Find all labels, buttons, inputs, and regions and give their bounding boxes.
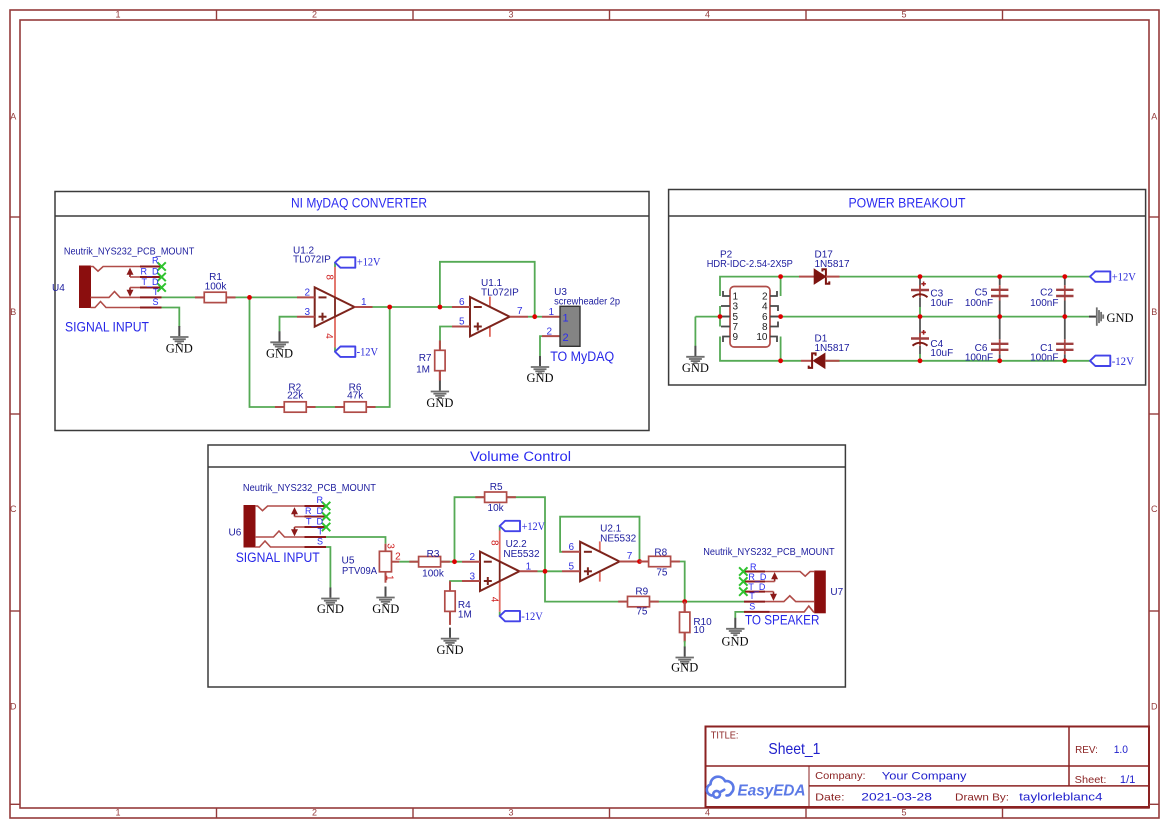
svg-text:4: 4 [705, 10, 710, 20]
svg-text:GND: GND [266, 347, 293, 361]
-12V power flag U2.2 [500, 611, 520, 621]
wire R2 to R6 [306, 406, 344, 408]
wire +12V top rail right [840, 276, 1091, 278]
wire R9 to junction [648, 601, 685, 603]
GND net flag right [1089, 307, 1103, 325]
no-connect X on U4 T_D [157, 283, 165, 291]
frame column numbers top [115, 10, 906, 20]
svg-text:Sheet:: Sheet: [1075, 774, 1107, 786]
wire pot pin2 to R3 [399, 561, 419, 563]
svg-text:R_D: R_D [140, 266, 159, 276]
wire U6 S to GND elbow [326, 547, 330, 588]
svg-text:7: 7 [627, 551, 633, 562]
svg-text:C2: C2 [1040, 288, 1053, 299]
svg-text:R7: R7 [419, 353, 432, 364]
junctions cap columns top rail [918, 274, 923, 279]
+12V power flag right [1090, 271, 1110, 281]
svg-text:GND: GND [436, 643, 463, 657]
svg-text:R3: R3 [427, 549, 440, 560]
wire R8 right leg down [670, 562, 685, 602]
resistor R9 [618, 596, 659, 606]
svg-text:U4: U4 [52, 283, 65, 294]
svg-text:100nF: 100nF [1030, 353, 1058, 364]
svg-text:SIGNAL INPUT: SIGNAL INPUT [65, 320, 149, 335]
svg-text:1: 1 [115, 808, 120, 818]
junction P2 pin2 [778, 274, 783, 279]
resistor R1 [195, 292, 236, 302]
junction U1.1 output [532, 314, 537, 319]
svg-text:5: 5 [901, 808, 906, 818]
svg-text:TO MyDAQ: TO MyDAQ [550, 349, 614, 364]
svg-text:R8: R8 [654, 547, 667, 558]
wire P2 pin10 rise [780, 337, 782, 361]
svg-text:8: 8 [489, 540, 500, 546]
svg-text:GND: GND [426, 396, 453, 410]
svg-text:T_D: T_D [306, 516, 324, 526]
jack U6 body [244, 506, 255, 548]
junctions cap columns bottom rail [918, 358, 923, 363]
svg-text:GND: GND [682, 361, 709, 375]
svg-text:2: 2 [312, 808, 317, 818]
wire P2 pin2 drop [780, 277, 782, 296]
jack U7 R_D link arrow [772, 574, 776, 582]
svg-text:TL072IP: TL072IP [293, 255, 331, 266]
frame column ticks bottom [217, 808, 1003, 818]
jack U4 S contact [91, 302, 141, 308]
capacitor C2 [1056, 279, 1073, 317]
svg-text:Your Company: Your Company [882, 771, 967, 783]
resistor R4 [445, 581, 455, 621]
svg-text:Neutrik_NYS232_PCB_MOUNT: Neutrik_NYS232_PCB_MOUNT [703, 547, 834, 558]
svg-text:Volume Control: Volume Control [470, 449, 571, 464]
svg-text:100nF: 100nF [1030, 298, 1058, 309]
svg-text:3: 3 [508, 808, 513, 818]
frame row ticks left [10, 217, 20, 611]
no-connect X on U4 R_D [157, 273, 165, 281]
svg-text:REV:: REV: [1075, 744, 1098, 756]
junction P2 pin5 [718, 314, 723, 319]
junction P2 pin10 [778, 358, 783, 363]
header P2 pin numbers right [756, 292, 768, 344]
wire -12V bottom rail right [825, 360, 1090, 362]
svg-text:TL072IP: TL072IP [481, 287, 519, 298]
svg-text:10: 10 [756, 332, 768, 343]
svg-text:5: 5 [901, 10, 906, 20]
op-amp U1.1 [452, 297, 528, 337]
svg-text:1: 1 [115, 10, 120, 20]
svg-text:C5: C5 [975, 288, 988, 299]
header P2 body [730, 287, 770, 348]
jack U7 S contact [770, 606, 815, 612]
R7 bottom stub [439, 371, 441, 381]
wire R6 up to output junction [366, 307, 390, 407]
svg-text:9: 9 [733, 332, 739, 343]
jack U7 body [815, 571, 826, 613]
svg-text:S: S [749, 601, 755, 611]
svg-text:C: C [10, 504, 17, 514]
capacitor C5 [991, 279, 1008, 317]
wire U2.1 feedback loop [560, 517, 639, 562]
resistor R2 [275, 402, 316, 412]
capacitor C6 [991, 319, 1008, 362]
svg-text:47k: 47k [347, 390, 364, 401]
svg-text:7: 7 [517, 306, 523, 317]
svg-text:GND: GND [166, 341, 193, 355]
svg-text:4: 4 [705, 808, 710, 818]
header P2 pin numbers left [733, 292, 739, 344]
svg-text:2: 2 [563, 332, 569, 344]
jack U7 R pin [743, 571, 765, 573]
+12V power flag U2.2 [500, 521, 520, 531]
wire U1.1 out to U3 pin1 [528, 316, 542, 318]
diode D1 [801, 353, 840, 368]
svg-text:NE5532: NE5532 [503, 549, 540, 560]
svg-text:100nF: 100nF [965, 298, 993, 309]
no-connect X on U6 R [322, 502, 330, 510]
jack U7 T_D link arrow [771, 592, 775, 600]
no-connect X on U4 R [157, 262, 165, 270]
wire junction down to R2 leg [250, 297, 285, 407]
jack U7 S pin [744, 611, 770, 613]
wire pin3 to GND [280, 317, 298, 332]
wire -12V bottom rail left [720, 337, 801, 361]
svg-text:2021-03-28: 2021-03-28 [861, 792, 932, 804]
wire T row U4 to R1 [162, 296, 205, 298]
wire R1 to opamp pin2 [226, 296, 297, 298]
resistor R7 [435, 341, 445, 381]
GND under U4 S [170, 326, 188, 343]
jack U4 body [80, 266, 91, 308]
svg-text:C: C [1151, 504, 1158, 514]
svg-text:D: D [10, 702, 17, 712]
svg-text:A: A [10, 112, 16, 122]
svg-text:8: 8 [323, 274, 334, 280]
svg-text:5: 5 [568, 562, 574, 573]
diode D17 [799, 269, 840, 284]
svg-text:GND: GND [372, 602, 399, 616]
wire junction to U7 T [685, 601, 744, 603]
jack U7 T contact [765, 596, 815, 602]
jack U6 S contact [255, 541, 305, 547]
svg-text:1: 1 [548, 307, 554, 318]
jack U7 R_D contact [765, 581, 775, 583]
svg-text:NI MyDAQ CONVERTER: NI MyDAQ CONVERTER [291, 196, 427, 211]
wire opamp U1.2 out to U1.1 pin6 [373, 306, 453, 308]
svg-text:GND: GND [317, 602, 344, 616]
wire U2.2 out down to R9 [545, 571, 629, 601]
jack U4 S pin [140, 307, 162, 309]
svg-text:T: T [153, 287, 159, 297]
frame column ticks top [217, 10, 1003, 20]
svg-text:POWER BREAKOUT: POWER BREAKOUT [849, 196, 966, 211]
jack U7 T_D pin [743, 591, 765, 593]
GND under opamp pin3 [270, 331, 288, 348]
svg-text:1/1: 1/1 [1120, 774, 1136, 786]
frame row ticks right [1149, 217, 1159, 611]
svg-text:taylorleblanc4: taylorleblanc4 [1019, 792, 1102, 804]
svg-text:22k: 22k [287, 390, 304, 401]
jack U6 S pin [305, 546, 327, 548]
svg-text:B: B [1151, 307, 1157, 317]
capacitor C3 [911, 279, 929, 317]
svg-text:HDR-IDC-2.54-2X5P: HDR-IDC-2.54-2X5P [707, 259, 793, 270]
jack U7 R_D pin [743, 581, 765, 583]
svg-text:R: R [750, 562, 757, 572]
svg-text:10uF: 10uF [930, 348, 953, 359]
junction R3 out [452, 559, 457, 564]
svg-text:NE5532: NE5532 [600, 534, 637, 545]
svg-text:3: 3 [304, 307, 310, 318]
svg-text:2: 2 [312, 10, 317, 20]
svg-text:1M: 1M [416, 365, 430, 376]
capacitor C4 [911, 319, 929, 362]
jack U4 T_D pin [140, 287, 162, 289]
junction at R1 output [247, 295, 252, 300]
resistor R3 [409, 557, 450, 567]
jack U4 T_D link arrow [128, 288, 132, 296]
jack U7 R contact [765, 572, 815, 577]
svg-text:75: 75 [656, 567, 668, 578]
svg-text:R_D: R_D [305, 506, 324, 516]
GND under P2 [686, 346, 704, 363]
svg-text:T_D: T_D [141, 277, 159, 287]
wire U6 T to pot pin3 [326, 537, 386, 544]
op-amp U1.2 [297, 263, 373, 352]
jack U6 T_D link arrow [292, 527, 296, 535]
svg-text:3: 3 [469, 572, 475, 583]
frame row letters right [1151, 112, 1158, 712]
svg-text:SIGNAL INPUT: SIGNAL INPUT [236, 550, 320, 565]
jack U6 R pin [305, 505, 327, 507]
junction U2.2 out [543, 569, 548, 574]
jack U4 R contact [91, 267, 141, 272]
GND under R7 [431, 381, 449, 398]
svg-text:1N5817: 1N5817 [815, 259, 850, 270]
wire P2 pins 3-5-7 tie [719, 306, 721, 327]
svg-text:R_D: R_D [748, 572, 767, 582]
+12V power flag U1.2 [335, 257, 355, 267]
svg-text:screwheader 2p: screwheader 2p [554, 297, 620, 308]
svg-text:2: 2 [546, 327, 552, 338]
GND under U6 S [321, 588, 339, 605]
svg-text:10: 10 [693, 625, 705, 636]
svg-text:4: 4 [762, 302, 768, 313]
frame column numbers bottom [115, 808, 906, 818]
svg-text:5: 5 [459, 317, 465, 328]
op-amp U2.1 [562, 541, 638, 581]
GND under U3 pin2 [531, 356, 549, 373]
svg-text:TITLE:: TITLE: [711, 730, 739, 742]
svg-text:GND: GND [721, 634, 748, 648]
svg-text:TO SPEAKER: TO SPEAKER [745, 613, 820, 628]
no-connect X on U7 R_D [739, 577, 747, 585]
capacitor C1 [1056, 319, 1073, 362]
svg-text:3: 3 [508, 10, 513, 20]
-12V power flag right [1090, 356, 1110, 366]
resistor R10 [680, 602, 690, 642]
wire U2.2 out to U2.1 pin5 [538, 570, 563, 572]
jack U7 T pin [744, 601, 765, 603]
svg-text:1: 1 [383, 575, 394, 581]
R10 top stub [684, 602, 686, 613]
U3 pin2 lead [542, 335, 560, 337]
svg-text:S: S [317, 536, 323, 546]
jack U4 R pin [140, 266, 162, 268]
jack U6 R_D link arrow [292, 509, 296, 517]
svg-text:U5: U5 [342, 555, 355, 566]
svg-text:100k: 100k [205, 281, 228, 292]
frame row letters left [10, 112, 17, 712]
screw header U3 body [560, 306, 580, 346]
wire GND leg left [694, 317, 696, 346]
wire U2.1 out to R8 [638, 561, 650, 563]
U3 pin1 lead [542, 316, 560, 318]
GND under R4 [441, 628, 459, 645]
wire R5 right leg [506, 497, 545, 571]
svg-text:Neutrik_NYS232_PCB_MOUNT: Neutrik_NYS232_PCB_MOUNT [64, 247, 194, 258]
resistor R5 [475, 492, 516, 502]
junctions cap columns mid rail [918, 314, 923, 319]
no-connect X on U6 T_D [322, 523, 330, 531]
wire +12V top rail left [720, 277, 799, 296]
R4 bottom stub [449, 611, 451, 625]
jack U4 R_D link arrow [128, 270, 132, 278]
svg-text:3: 3 [384, 543, 395, 549]
wire S pin to GND elbow [162, 308, 180, 328]
no-connect X on U7 T_D [739, 587, 747, 595]
svg-text:R9: R9 [635, 586, 648, 597]
svg-text:Company:: Company: [815, 770, 866, 782]
potentiometer U5 [379, 544, 399, 583]
svg-text:-12V: -12V [1112, 354, 1134, 368]
jack U6 R contact [255, 506, 305, 511]
header P2 left leads [720, 291, 730, 342]
jack U4 T pin [140, 296, 162, 298]
svg-text:Date:: Date: [815, 792, 845, 804]
svg-text:2: 2 [304, 288, 310, 299]
svg-text:GND: GND [1107, 311, 1134, 325]
svg-text:Sheet_1: Sheet_1 [768, 741, 820, 758]
svg-text:D: D [1151, 702, 1158, 712]
jack U4 R_D pin [140, 276, 162, 278]
svg-text:1: 1 [361, 297, 367, 308]
junction U2.1 out [637, 559, 642, 564]
frame band corner closures [10, 803, 20, 805]
wire pin5 elbow to R7 [440, 327, 452, 352]
svg-text:6: 6 [459, 297, 465, 308]
svg-text:GND: GND [526, 371, 553, 385]
wire GND mid rail [695, 316, 1089, 318]
jack U6 R_D pin [305, 516, 327, 518]
wire U3 pin2 to GND elbow [540, 336, 542, 357]
svg-text:U6: U6 [229, 528, 242, 539]
svg-text:T: T [318, 526, 324, 536]
svg-text:EasyEDA: EasyEDA [738, 783, 806, 800]
op-amp U2.2 [462, 526, 538, 616]
jack U6 T_D contact [295, 526, 305, 528]
junction feedback R2R6 [387, 305, 392, 310]
jack U7 T_D contact [765, 591, 774, 593]
-12V power flag U1.2 [335, 347, 355, 357]
svg-text:U7: U7 [830, 587, 843, 598]
svg-text:75: 75 [636, 606, 648, 617]
jack U6 T_D pin [305, 526, 327, 528]
resistor R6 [335, 402, 376, 412]
svg-text:B: B [10, 307, 16, 317]
svg-text:2: 2 [469, 552, 475, 563]
title block border [706, 727, 1150, 808]
svg-text:+12V: +12V [1112, 270, 1136, 284]
svg-text:1.0: 1.0 [1114, 744, 1128, 756]
junction R8R9R10 [682, 599, 687, 604]
wire U7 S to GND elbow [735, 612, 744, 618]
wire U1.1 feedback loop [440, 262, 535, 317]
junction feedback U1.1 [438, 305, 443, 310]
svg-text:-12V: -12V [357, 344, 379, 358]
svg-text:10k: 10k [488, 503, 505, 514]
wire R3 to U2.2 pin2 [440, 561, 462, 563]
block box POWER BREAKOUT [669, 190, 1146, 386]
svg-text:1N5817: 1N5817 [815, 343, 850, 354]
svg-text:T: T [749, 591, 755, 601]
jack U4 R_D contact [130, 276, 140, 278]
svg-text:6: 6 [568, 542, 574, 553]
R10 bottom stub [684, 633, 686, 641]
jack U4 T_D contact [130, 287, 140, 289]
svg-text:1: 1 [563, 312, 569, 324]
svg-text:1: 1 [526, 561, 532, 572]
svg-text:Neutrik_NYS232_PCB_MOUNT: Neutrik_NYS232_PCB_MOUNT [243, 483, 376, 494]
svg-text:3: 3 [733, 302, 739, 313]
jack U6 T contact [255, 531, 305, 537]
no-connect X on U6 R_D [322, 512, 330, 520]
svg-text:-12V: -12V [521, 609, 543, 623]
svg-text:R5: R5 [490, 482, 503, 493]
block box NI MyDAQ CONVERTER [55, 192, 649, 431]
wire R5 left leg [455, 497, 486, 562]
jack U6 R_D contact [295, 516, 305, 518]
svg-text:2: 2 [395, 552, 401, 563]
svg-text:R: R [317, 495, 324, 505]
svg-text:100nF: 100nF [965, 353, 993, 364]
resistor R8 [639, 556, 680, 566]
svg-text:4: 4 [323, 333, 334, 339]
GND under U5 [376, 587, 394, 604]
svg-text:+12V: +12V [522, 519, 546, 533]
header P2 right leads [770, 291, 781, 342]
GND under R10 [676, 647, 694, 664]
wire R4 to U2.2 pin3 [450, 581, 462, 591]
svg-text:S: S [152, 297, 158, 307]
junction P2 pin6 [778, 314, 783, 319]
svg-text:+12V: +12V [357, 255, 381, 269]
no-connect X on U7 R [739, 567, 747, 575]
jack U6 T pin [305, 536, 327, 538]
svg-text:PTV09A: PTV09A [342, 566, 377, 577]
svg-text:1M: 1M [458, 610, 472, 621]
svg-text:4: 4 [489, 597, 500, 603]
jack U4 T contact [91, 292, 141, 298]
svg-text:Drawn By:: Drawn By: [955, 792, 1009, 804]
svg-text:10uF: 10uF [930, 298, 953, 309]
block box Volume Control [208, 445, 845, 687]
svg-text:A: A [1151, 112, 1157, 122]
GND under U7 S [726, 618, 744, 635]
svg-text:GND: GND [671, 661, 698, 675]
svg-text:100k: 100k [422, 568, 445, 579]
EasyEDA logo cloud [707, 777, 734, 798]
